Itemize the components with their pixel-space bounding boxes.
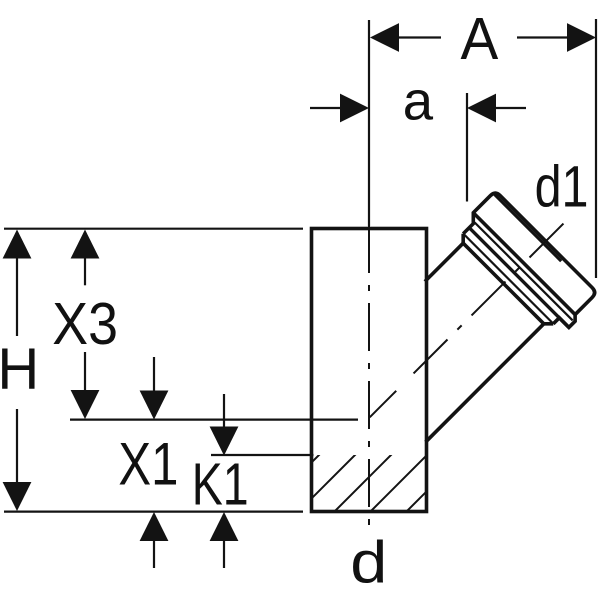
svg-text:a: a [403, 70, 434, 131]
svg-text:K1: K1 [192, 452, 249, 518]
svg-text:d: d [350, 530, 387, 596]
svg-text:A: A [461, 6, 499, 73]
svg-text:d1: d1 [535, 154, 589, 219]
svg-text:X3: X3 [52, 291, 118, 357]
svg-text:X1: X1 [118, 430, 178, 498]
svg-text:H: H [0, 336, 39, 401]
